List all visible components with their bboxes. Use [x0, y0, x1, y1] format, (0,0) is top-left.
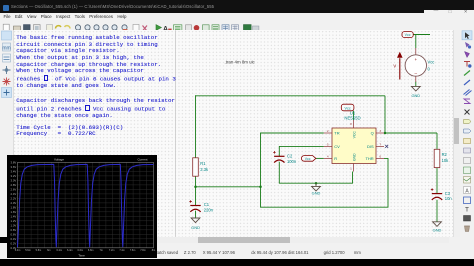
svg-text:Vcc: Vcc [428, 60, 435, 65]
svg-text:GND: GND [352, 153, 356, 161]
horizontal scrollbar [13, 237, 453, 243]
svg-text:7: 7 [379, 143, 381, 147]
wire R1 bottom lead [195, 176, 197, 187]
svg-text:1.4V: 1.4V [11, 214, 17, 218]
svg-text:Time: Time [78, 253, 85, 257]
svg-text:GND: GND [411, 93, 420, 98]
svg-text:6: 6 [379, 155, 381, 159]
svg-text:6.2m: 6.2m [57, 249, 63, 252]
svg-text:8m: 8m [152, 249, 155, 252]
svg-text:Current: Current [138, 157, 148, 161]
svg-text:3.8V: 3.8V [11, 160, 17, 164]
svg-text:V: V [393, 64, 396, 69]
power flag VCC above V1 [402, 32, 413, 38]
svg-text:–: – [415, 71, 418, 76]
wire C3 to GND [436, 200, 438, 222]
waveform overlay window [7, 155, 157, 258]
wire C1 top lead [195, 187, 197, 205]
voltage source V1 [405, 55, 426, 76]
wire C2 bottom to chip GND [279, 162, 352, 183]
wire Vcc flag to pin 4 [316, 157, 324, 159]
svg-text:1: 1 [350, 167, 352, 171]
svg-text:0.6V: 0.6V [11, 232, 17, 236]
svg-text:7.4m: 7.4m [119, 249, 125, 252]
annotation text [16, 35, 176, 90]
svg-text:R: R [334, 156, 337, 161]
svg-text:Voltage: Voltage [54, 157, 64, 161]
ground at C1 [191, 218, 200, 230]
svg-text:GND: GND [312, 190, 321, 195]
svg-text:10k: 10k [442, 158, 450, 163]
wire Q node up to rail [384, 96, 386, 133]
svg-text:Vcc: Vcc [345, 106, 351, 110]
svg-text:1.0V: 1.0V [11, 223, 17, 227]
svg-text:TR: TR [334, 131, 339, 136]
svg-text:5.4m: 5.4m [15, 249, 21, 252]
plot x axis labels [15, 249, 156, 252]
svg-text:0.4V: 0.4V [11, 237, 17, 241]
wire CV to C2 [279, 146, 324, 156]
wire C1 to GND [195, 211, 197, 218]
ground at C2/U1 [312, 183, 321, 195]
svg-text:R1: R1 [200, 161, 206, 166]
svg-text:1.6V: 1.6V [11, 210, 17, 214]
V1 voltage arrow [399, 58, 401, 79]
svg-text:7m: 7m [99, 249, 102, 252]
capacitor C3 [431, 188, 442, 200]
wire V1 minus to GND [415, 82, 417, 87]
svg-text:C2: C2 [287, 154, 293, 159]
svg-text:7.6m: 7.6m [130, 249, 136, 252]
menu bar [0, 13, 474, 20]
wire TR to node [261, 133, 324, 187]
wire R2 to C3 [436, 168, 438, 194]
svg-text:5.8m: 5.8m [36, 249, 42, 252]
svg-text:5.6m: 5.6m [25, 249, 31, 252]
svg-text:7.2m: 7.2m [109, 249, 115, 252]
svg-text:2.6V: 2.6V [11, 187, 17, 191]
svg-text:3.2V: 3.2V [11, 174, 17, 178]
svg-text:C1: C1 [204, 202, 210, 207]
plot frame [18, 162, 154, 247]
resistor R2 [434, 149, 440, 167]
svg-text:.tran 4m 8m uic: .tran 4m 8m uic [225, 60, 256, 65]
svg-text:220n: 220n [204, 207, 214, 212]
svg-text:8: 8 [350, 122, 352, 126]
ground at C3 [433, 222, 442, 233]
svg-text:2.0V: 2.0V [11, 201, 17, 205]
svg-text:5: 5 [327, 143, 329, 147]
top letterbox + title bar [0, 0, 474, 13]
svg-text:0: 0 [428, 67, 431, 72]
capacitor C2 [273, 151, 284, 163]
svg-text:R2: R2 [442, 152, 448, 157]
junction node at Q output [384, 132, 387, 135]
resistor R1 [193, 158, 199, 176]
svg-text:3.4V: 3.4V [11, 169, 17, 173]
sheet page border [175, 30, 177, 237]
junction node TR column [259, 186, 262, 189]
wire lower rail node to THR [261, 158, 389, 207]
svg-text:2: 2 [327, 129, 329, 133]
pins of U1 and V1 (dark red stubs) [324, 48, 416, 172]
status bar [0, 243, 474, 259]
op-amp/timer U1 NE555D body [332, 128, 376, 164]
svg-text:100n: 100n [287, 159, 297, 164]
svg-text:1.8V: 1.8V [11, 205, 17, 209]
svg-text:2.4V: 2.4V [11, 192, 17, 196]
wire VCC flag to pin 8 [353, 111, 355, 120]
svg-text:GND: GND [191, 225, 200, 230]
plot grid [18, 162, 154, 247]
svg-text:4: 4 [327, 155, 329, 159]
svg-text:6.4m: 6.4m [67, 249, 73, 252]
svg-text:Vcc: Vcc [305, 157, 311, 161]
svg-text:10n: 10n [445, 196, 453, 201]
svg-text:THR: THR [365, 156, 373, 161]
svg-text:VCC: VCC [352, 131, 356, 139]
svg-text:2.8V: 2.8V [11, 183, 17, 187]
svg-text:Q: Q [371, 131, 374, 136]
wire R2 top lead [436, 133, 438, 149]
svg-text:C3: C3 [445, 191, 451, 196]
wire R1 top lead [195, 95, 197, 158]
plot y axis labels [11, 160, 17, 249]
power flag Vcc at pin 4 reset [301, 156, 315, 162]
junction node at R1/C1 [194, 186, 197, 189]
power flag VCC above U1 [341, 104, 354, 111]
svg-text:CV: CV [334, 144, 340, 149]
svg-text:7.8m: 7.8m [140, 249, 146, 252]
ground at V1 [411, 86, 420, 98]
svg-text:DIS: DIS [367, 144, 374, 149]
svg-text:0.8V: 0.8V [11, 228, 17, 232]
no-connect X on DIS pin 7 [385, 145, 388, 148]
svg-text:2.2V: 2.2V [11, 196, 17, 200]
canvas [13, 30, 453, 237]
svg-text:3: 3 [379, 129, 381, 133]
wire top rail Q to R1 [196, 95, 386, 97]
left toolbar [0, 30, 14, 237]
svg-text:Vcc: Vcc [405, 33, 411, 37]
capacitor C1 [189, 200, 200, 212]
wire VCC flag to V1 [413, 35, 430, 49]
wire Q to R2 [384, 132, 437, 134]
bottom letterbox [0, 259, 474, 266]
svg-text:6m: 6m [47, 249, 50, 252]
wire left rail R1 to node [196, 186, 261, 188]
svg-text:NE555D: NE555D [344, 116, 360, 121]
svg-text:1.2V: 1.2V [11, 219, 17, 223]
junction node at GND tap [315, 182, 318, 185]
svg-text:GND: GND [433, 227, 442, 232]
svg-text:0.2V: 0.2V [11, 241, 17, 245]
svg-text:6.8m: 6.8m [88, 249, 94, 252]
svg-text:3.3k: 3.3k [200, 167, 209, 172]
svg-text:3.0V: 3.0V [11, 178, 17, 182]
svg-text:3.6V: 3.6V [11, 165, 17, 169]
waveform trace V(C1) [18, 164, 154, 247]
right toolbar + vertical scrollbar [453, 30, 462, 237]
main toolbar [0, 20, 474, 31]
svg-text:6.6m: 6.6m [78, 249, 84, 252]
